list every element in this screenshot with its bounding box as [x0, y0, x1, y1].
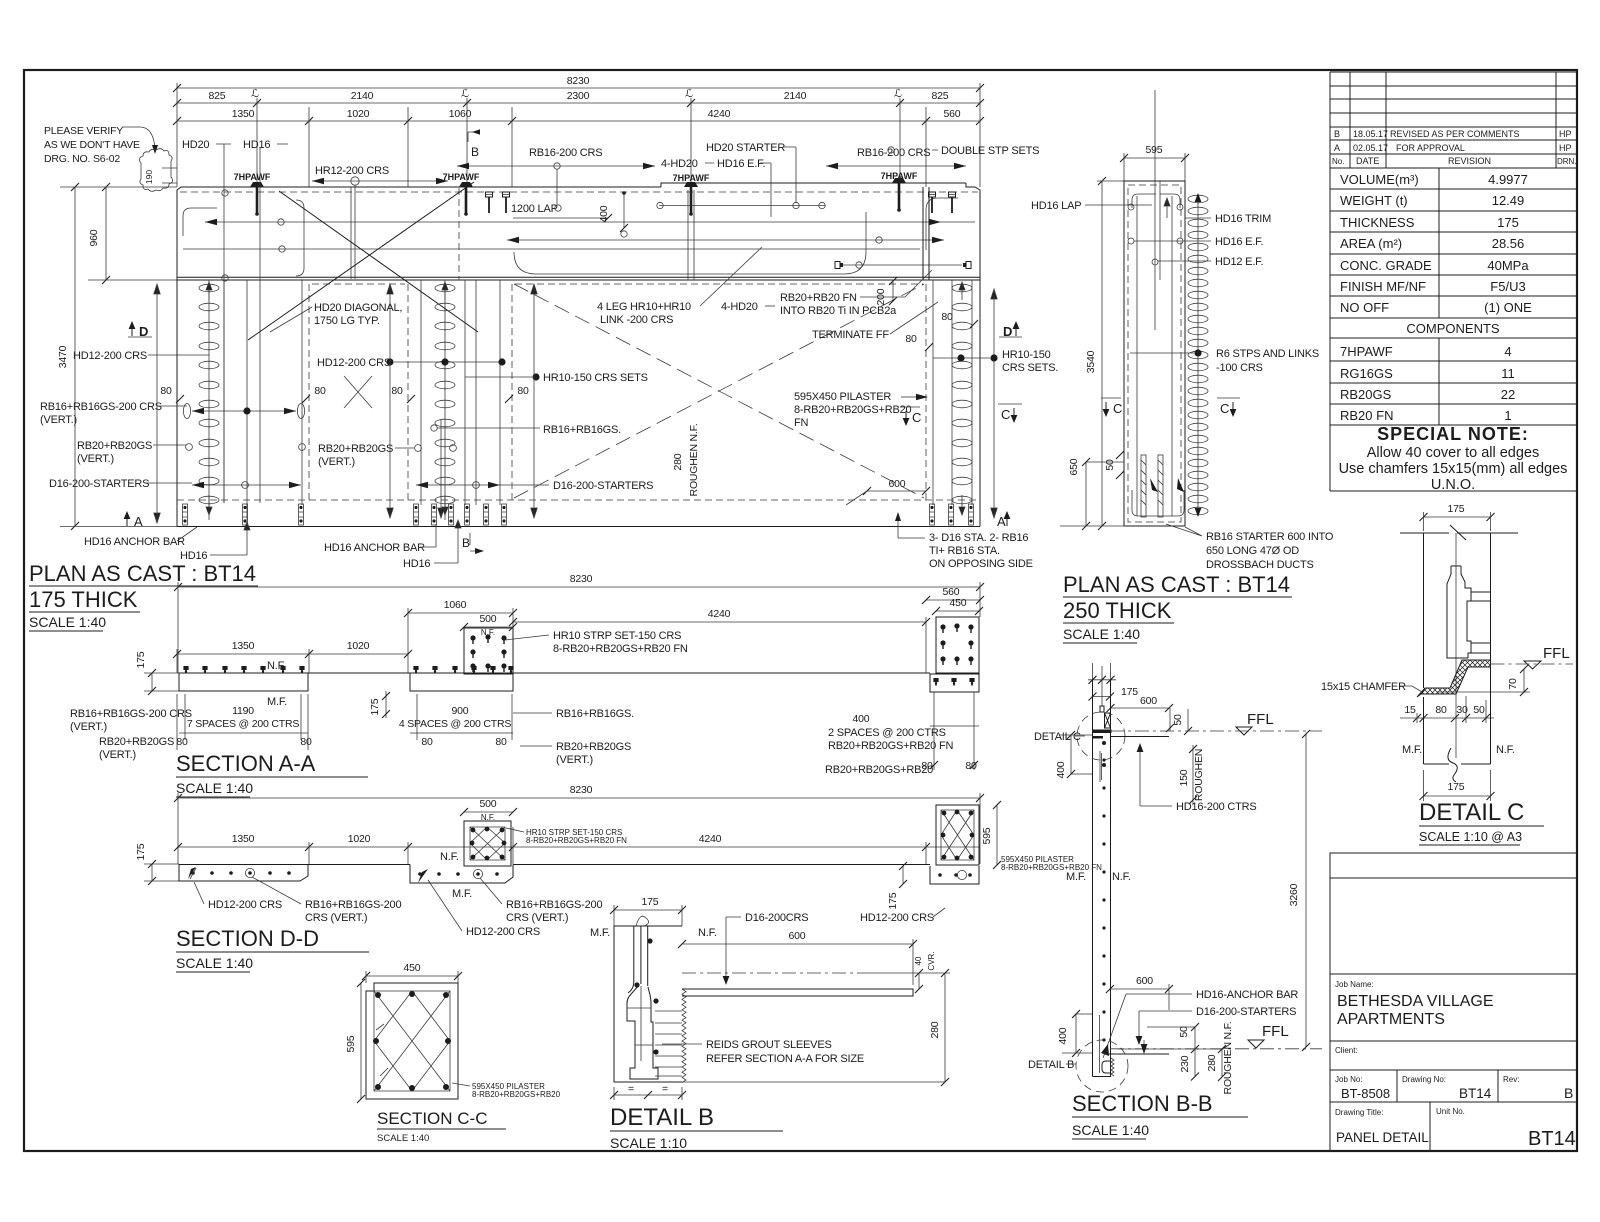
bottom dashed circle [1076, 1040, 1128, 1092]
svg-text:175: 175 [1497, 215, 1519, 230]
D section marker left [129, 321, 136, 336]
svg-text:450: 450 [404, 962, 421, 974]
svg-text:15x15 CHAMFER: 15x15 CHAMFER [1321, 681, 1406, 693]
svg-text:DATE: DATE [1356, 156, 1379, 166]
svg-text:RB16 STARTER 600 INTO: RB16 STARTER 600 INTO [1206, 531, 1334, 543]
svg-text:DRN.: DRN. [1557, 157, 1577, 166]
svg-text:7HPAWF: 7HPAWF [1340, 344, 1393, 359]
svg-text:(VERT.): (VERT.) [70, 721, 107, 733]
svg-text:400: 400 [1055, 761, 1067, 778]
svg-text:825: 825 [209, 90, 226, 102]
top edge dashed line [180, 191, 978, 193]
svg-text:Allow 40 cover to all edges: Allow 40 cover to all edges [1367, 445, 1540, 461]
svg-text:80: 80 [160, 385, 172, 397]
svg-text:40MPa: 40MPa [1487, 258, 1529, 273]
svg-text:SECTION C-C: SECTION C-C [377, 1109, 488, 1128]
svg-text:600: 600 [1136, 975, 1153, 987]
dimension extension lines [177, 83, 980, 187]
svg-text:M.F.: M.F. [267, 696, 287, 708]
svg-text:HD16: HD16 [243, 139, 270, 151]
svg-text:250 THICK: 250 THICK [1063, 598, 1172, 623]
svg-text:DOUBLE STP SETS: DOUBLE STP SETS [941, 145, 1039, 157]
svg-text:RB20 FN: RB20 FN [1340, 408, 1393, 423]
svg-text:RB20+RB20 FN: RB20+RB20 FN [780, 292, 857, 304]
svg-text:=: = [628, 1083, 634, 1095]
svg-text:D16-200-STARTERS: D16-200-STARTERS [553, 480, 653, 492]
svg-text:A: A [1334, 143, 1340, 153]
svg-text:960: 960 [88, 229, 100, 246]
opening dashed edges [309, 284, 926, 500]
top corbel profile [1100, 706, 1104, 712]
svg-text:FOR APPROVAL: FOR APPROVAL [1396, 143, 1465, 153]
svg-text:BETHESDA VILLAGE: BETHESDA VILLAGE [1337, 993, 1494, 1010]
svg-text:A: A [134, 514, 143, 529]
svg-text:400: 400 [598, 205, 610, 222]
svg-text:825: 825 [932, 90, 949, 102]
dashed pilaster edge in band [923, 187, 929, 280]
svg-text:175: 175 [642, 896, 659, 908]
svg-text:RB20GS: RB20GS [1340, 387, 1392, 402]
svg-text:(VERT.): (VERT.) [40, 414, 77, 426]
band rebar line y240 [507, 239, 944, 241]
wall verticals [1093, 680, 1111, 1077]
svg-text:LINK -200 CRS: LINK -200 CRS [600, 314, 673, 326]
svg-text:C: C [1113, 401, 1122, 416]
svg-text:4-HD20: 4-HD20 [721, 301, 758, 313]
svg-text:VOLUME(m³): VOLUME(m³) [1340, 172, 1419, 187]
svg-text:N.F.: N.F. [440, 851, 459, 863]
top U bend [1132, 194, 1180, 208]
oval link column [1188, 195, 1208, 515]
svg-text:SECTION A-A: SECTION A-A [176, 751, 316, 776]
svg-text:7HPAWF: 7HPAWF [234, 172, 271, 182]
svg-text:1350: 1350 [232, 833, 255, 845]
diamond ties [374, 991, 450, 1091]
B section cut top [468, 132, 480, 142]
svg-text:AREA (m²): AREA (m²) [1340, 236, 1402, 251]
right pilaster square [936, 805, 979, 865]
mid slab [410, 865, 513, 884]
svg-text:HD12-200 CRS: HD12-200 CRS [73, 350, 147, 362]
svg-text:B: B [462, 536, 470, 550]
svg-text:Drawing No:: Drawing No: [1402, 1075, 1446, 1084]
A section marker right [1004, 511, 1011, 526]
svg-text:2 SPACES @ 200 CTRS: 2 SPACES @ 200 CTRS [828, 727, 946, 739]
svg-text:500: 500 [480, 798, 497, 810]
svg-text:80: 80 [495, 736, 507, 748]
svg-text:HD20 DIAGONAL,: HD20 DIAGONAL, [314, 302, 402, 314]
svg-text:D16-200-STARTERS: D16-200-STARTERS [1196, 1006, 1296, 1018]
svg-text:CONC. GRADE: CONC. GRADE [1340, 258, 1432, 273]
svg-text:175: 175 [887, 892, 899, 909]
svg-text:175: 175 [1448, 781, 1465, 793]
svg-text:DETAIL C: DETAIL C [1419, 799, 1524, 826]
svg-text:7 SPACES @ 200 CTRS: 7 SPACES @ 200 CTRS [187, 718, 299, 730]
anchor bars bottom [183, 504, 188, 525]
svg-text:280: 280 [1206, 1054, 1218, 1071]
svg-text:ON OPPOSING SIDE: ON OPPOSING SIDE [929, 558, 1033, 570]
svg-text:80: 80 [391, 385, 403, 397]
svg-text:8230: 8230 [570, 784, 593, 796]
svg-text:PLAN AS CAST : BT14: PLAN AS CAST : BT14 [29, 561, 256, 586]
svg-text:HP: HP [1559, 129, 1572, 139]
svg-text:FFL: FFL [1262, 1023, 1289, 1040]
svg-text:4 LEG HR10+HR10: 4 LEG HR10+HR10 [597, 301, 691, 313]
svg-text:50: 50 [1178, 1026, 1190, 1038]
svg-text:C: C [1001, 407, 1010, 422]
svg-text:175: 175 [1448, 503, 1465, 515]
svg-text:RB20+RB20GS: RB20+RB20GS [99, 736, 174, 748]
svg-text:PLEASE VERIFY: PLEASE VERIFY [44, 125, 123, 137]
svg-text:REVISED AS PER COMMENTS: REVISED AS PER COMMENTS [1390, 129, 1520, 139]
svg-text:CRS (VERT.): CRS (VERT.) [506, 912, 568, 924]
grout insert profile [1447, 566, 1471, 658]
oval link column middle [435, 284, 455, 504]
svg-text:APARTMENTS: APARTMENTS [1337, 1011, 1445, 1028]
svg-text:N.F.: N.F. [1112, 871, 1131, 883]
svg-text:=: = [662, 1083, 668, 1095]
svg-text:RB16+RB16GS-200 CRS: RB16+RB16GS-200 CRS [40, 401, 162, 413]
svg-text:3260: 3260 [1288, 883, 1300, 906]
svg-text:Job No:: Job No: [1335, 1075, 1363, 1084]
svg-text:80: 80 [517, 385, 529, 397]
svg-text:CVR.: CVR. [927, 951, 936, 970]
svg-text:B: B [1334, 129, 1340, 139]
bottom dims [614, 1094, 682, 1096]
svg-text:2140: 2140 [784, 90, 807, 102]
svg-text:CRS SETS.: CRS SETS. [1002, 362, 1058, 374]
face line [308, 864, 930, 866]
wall strip verticals middle [421, 280, 500, 520]
svg-text:80: 80 [314, 385, 326, 397]
svg-text:HD12-200 CRS: HD12-200 CRS [317, 357, 391, 369]
svg-text:(VERT.): (VERT.) [99, 749, 136, 761]
svg-text:WEIGHT (t): WEIGHT (t) [1340, 193, 1408, 208]
svg-text:200: 200 [875, 288, 887, 305]
svg-text:80: 80 [941, 311, 953, 323]
svg-text:HR12-200 CRS: HR12-200 CRS [315, 165, 389, 177]
svg-text:595: 595 [981, 827, 993, 844]
svg-text:11: 11 [1501, 366, 1515, 381]
svg-text:HD16 ANCHOR BAR: HD16 ANCHOR BAR [84, 536, 185, 548]
svg-text:BT14: BT14 [1528, 1128, 1576, 1150]
svg-text:4-HD20: 4-HD20 [661, 158, 698, 170]
svg-text:THICKNESS: THICKNESS [1340, 215, 1415, 230]
svg-text:1200 LAP: 1200 LAP [511, 203, 558, 215]
svg-text:DROSSBACH DUCTS: DROSSBACH DUCTS [1206, 559, 1314, 571]
trim circles [1128, 204, 1134, 210]
svg-text:-100 CRS: -100 CRS [1216, 362, 1263, 374]
svg-text:595X450 PILASTER: 595X450 PILASTER [794, 391, 891, 403]
svg-text:SCALE 1:10: SCALE 1:10 [610, 1135, 687, 1151]
inner vertical bars [1155, 90, 1160, 330]
svg-text:18.05.17: 18.05.17 [1353, 129, 1388, 139]
svg-text:150: 150 [1178, 769, 1190, 786]
svg-text:1020: 1020 [347, 108, 370, 120]
svg-text:190: 190 [144, 170, 154, 184]
HD20 diagonal bars [248, 182, 478, 340]
svg-text:7HPAWF: 7HPAWF [673, 173, 710, 183]
svg-text:Job Name:: Job Name: [1335, 980, 1374, 989]
svg-text:HD16 E.F.: HD16 E.F. [717, 158, 765, 170]
svg-text:400: 400 [1057, 1027, 1069, 1044]
svg-text:SCALE 1:10 @ A3: SCALE 1:10 @ A3 [1419, 830, 1522, 844]
svg-text:BT-8508: BT-8508 [1341, 1086, 1390, 1101]
rounded rebar corners [183, 198, 958, 276]
svg-text:80: 80 [1435, 704, 1447, 716]
svg-text:1020: 1020 [347, 640, 370, 652]
svg-text:450: 450 [950, 597, 967, 609]
svg-text:HD12-200 CRS: HD12-200 CRS [860, 912, 934, 924]
HD20 starter bars [688, 190, 694, 280]
svg-text:A: A [997, 514, 1006, 529]
svg-text:HD16 TRIM: HD16 TRIM [1215, 213, 1271, 225]
svg-text:RB16+RB16GS-200: RB16+RB16GS-200 [506, 899, 602, 911]
svg-text:C: C [912, 410, 921, 425]
svg-text:DETAIL B: DETAIL B [610, 1104, 714, 1131]
chamfer notch [1417, 688, 1425, 697]
svg-text:8230: 8230 [567, 75, 590, 87]
svg-text:8-RB20+RB20GS+RB20 FN: 8-RB20+RB20GS+RB20 FN [1001, 863, 1102, 872]
opening2 big dashed X [514, 284, 924, 498]
svg-text:RB20+RB20GS: RB20+RB20GS [77, 440, 152, 452]
svg-text:FFL: FFL [1247, 711, 1274, 728]
svg-text:Client:: Client: [1335, 1046, 1358, 1055]
svg-text:650: 650 [1068, 458, 1080, 475]
svg-text:PLAN AS CAST : BT14: PLAN AS CAST : BT14 [1063, 572, 1290, 597]
svg-text:(VERT.): (VERT.) [556, 754, 593, 766]
svg-text:FN: FN [794, 417, 809, 429]
right pilaster [513, 672, 930, 674]
svg-text:80: 80 [421, 736, 433, 748]
svg-text:7HPAWF: 7HPAWF [881, 171, 918, 181]
svg-text:M.F.: M.F. [1402, 744, 1422, 756]
svg-text:1060: 1060 [449, 108, 472, 120]
svg-text:4240: 4240 [708, 108, 731, 120]
svg-text:HR10-150: HR10-150 [1002, 349, 1051, 361]
svg-text:4.9977: 4.9977 [1488, 172, 1528, 187]
svg-text:175: 175 [1121, 686, 1138, 698]
svg-text:1190: 1190 [232, 705, 254, 717]
svg-text:HD16-ANCHOR BAR: HD16-ANCHOR BAR [1196, 989, 1298, 1001]
svg-text:CRS (VERT.): CRS (VERT.) [305, 912, 367, 924]
svg-text:175: 175 [135, 651, 147, 668]
svg-text:RB20+RB20GS: RB20+RB20GS [318, 443, 393, 455]
svg-text:Unit No.: Unit No. [1436, 1107, 1465, 1116]
svg-text:SCALE 1:40: SCALE 1:40 [176, 780, 253, 796]
svg-text:HR10-150 CRS SETS: HR10-150 CRS SETS [543, 372, 648, 384]
svg-text:RB16+RB16GS-200: RB16+RB16GS-200 [305, 899, 401, 911]
band rebar line y222 [205, 221, 975, 223]
left pilaster square [464, 821, 511, 866]
svg-text:3470: 3470 [57, 345, 69, 368]
svg-text:230: 230 [1179, 1055, 1191, 1072]
panel outline [177, 183, 980, 527]
svg-text:ℒ: ℒ [894, 88, 902, 100]
svg-text:N.F.: N.F. [698, 927, 717, 939]
svg-text:HD20: HD20 [182, 139, 209, 151]
svg-text:500: 500 [480, 613, 497, 625]
svg-text:REVISION: REVISION [1448, 156, 1491, 166]
svg-text:4: 4 [1504, 344, 1511, 359]
svg-text:NO OFF: NO OFF [1340, 300, 1389, 315]
svg-text:40: 40 [914, 956, 923, 965]
svg-text:1350: 1350 [232, 108, 255, 120]
svg-text:80: 80 [300, 736, 312, 748]
svg-text:HP: HP [1559, 143, 1572, 153]
svg-text:HD12 E.F.: HD12 E.F. [1215, 256, 1263, 268]
svg-text:595: 595 [345, 1035, 357, 1052]
mesh dots [1102, 758, 1105, 1041]
properties table grid [1330, 168, 1577, 491]
svg-text:B: B [1564, 1085, 1573, 1101]
svg-text:SECTION D-D: SECTION D-D [176, 926, 319, 951]
top dashed circle [1077, 712, 1125, 760]
svg-text:M.F.: M.F. [1066, 871, 1086, 883]
corner dots [375, 992, 381, 998]
svg-text:ROUGHEN: ROUGHEN [1193, 749, 1205, 801]
svg-text:Drawing Title:: Drawing Title: [1335, 1108, 1383, 1117]
svg-text:HD16: HD16 [403, 558, 430, 570]
svg-text:280: 280 [929, 1021, 941, 1038]
svg-text:4 SPACES @ 200 CTRS: 4 SPACES @ 200 CTRS [399, 718, 511, 730]
vertical dim arrows in openings [154, 284, 160, 523]
svg-text:70: 70 [1507, 678, 1519, 690]
left slab [179, 673, 308, 691]
svg-text:TERMINATE FF: TERMINATE FF [812, 329, 889, 341]
band rebar line y249 [183, 248, 920, 250]
right slab [930, 866, 979, 884]
svg-text:8-RB20+RB20GS+RB20 FN: 8-RB20+RB20GS+RB20 FN [553, 643, 688, 655]
svg-text:U.N.O.: U.N.O. [1431, 477, 1475, 493]
bottom slab line [1104, 1053, 1169, 1055]
bottom dashed starter line [177, 499, 980, 501]
HD16 arrow inside top [1164, 198, 1170, 212]
svg-text:Use chamfers 15x15(mm) all edg: Use chamfers 15x15(mm) all edges [1339, 461, 1568, 477]
svg-text:HD20 STARTER: HD20 STARTER [706, 142, 785, 154]
svg-text:15: 15 [1404, 704, 1416, 716]
svg-text:RB16+RB16GS.: RB16+RB16GS. [543, 424, 621, 436]
svg-text:F5/U3: F5/U3 [1490, 279, 1525, 294]
svg-text:RB20+RB20GS+RB20: RB20+RB20GS+RB20 [825, 764, 933, 776]
svg-text:SCALE 1:40: SCALE 1:40 [1063, 626, 1140, 642]
svg-text:1060: 1060 [444, 599, 467, 611]
svg-text:50: 50 [1473, 704, 1485, 716]
svg-text:RB16+RB16GS-200 CRS: RB16+RB16GS-200 CRS [70, 708, 192, 720]
grout tube [628, 926, 648, 993]
wall outline [614, 926, 682, 1082]
svg-text:8-RB20+RB20GS+RB20 FN: 8-RB20+RB20GS+RB20 FN [526, 836, 627, 845]
svg-text:HD12-200 CRS: HD12-200 CRS [208, 899, 282, 911]
revision cloud [139, 149, 172, 192]
svg-text:ℒ: ℒ [461, 88, 469, 100]
svg-text:HD16 LAP: HD16 LAP [1031, 200, 1081, 212]
svg-text:B: B [471, 145, 479, 159]
svg-text:560: 560 [944, 108, 961, 120]
centerline [682, 972, 860, 974]
svg-text:175 THICK: 175 THICK [29, 587, 138, 612]
svg-text:SCALE 1:40: SCALE 1:40 [29, 614, 106, 630]
pilaster section outline [366, 983, 458, 1099]
svg-text:SECTION B-B: SECTION B-B [1072, 1091, 1213, 1116]
svg-text:400: 400 [853, 713, 870, 725]
band tie bolts y265 [840, 264, 962, 266]
svg-text:RB20+RB20GS: RB20+RB20GS [556, 741, 631, 753]
svg-text:No.: No. [1332, 157, 1344, 166]
B section cut bottom [470, 533, 482, 551]
7HPAWF anchors [250, 182, 264, 216]
svg-text:ROUGHEN N.F.: ROUGHEN N.F. [1222, 1022, 1234, 1095]
svg-text:SCALE 1:40: SCALE 1:40 [176, 955, 253, 971]
svg-text:(VERT.): (VERT.) [77, 453, 114, 465]
wall strip verticals right [933, 280, 972, 505]
svg-text:80: 80 [176, 736, 188, 748]
svg-text:(1) ONE: (1) ONE [1484, 300, 1532, 315]
svg-text:900: 900 [452, 705, 469, 717]
svg-text:REFER SECTION A-A FOR SIZE: REFER SECTION A-A FOR SIZE [706, 1053, 864, 1065]
mid slab [308, 672, 410, 674]
svg-text:2300: 2300 [567, 90, 590, 102]
svg-text:ℒ: ℒ [685, 88, 693, 100]
svg-text:HD16 ANCHOR BAR: HD16 ANCHOR BAR [324, 542, 425, 554]
roughened edge [682, 989, 686, 1083]
svg-text:D16-200CRS: D16-200CRS [745, 912, 808, 924]
top break line [1400, 525, 1518, 540]
svg-text:DRG. NO. S6-02: DRG. NO. S6-02 [44, 153, 120, 165]
svg-text:BT14: BT14 [1459, 1086, 1492, 1101]
svg-text:INTO RB20 Ti IN PCB2a: INTO RB20 Ti IN PCB2a [780, 305, 897, 317]
svg-text:N.F.: N.F. [267, 660, 286, 672]
svg-text:1350: 1350 [232, 640, 255, 652]
svg-text:8-RB20+RB20GS+RB20: 8-RB20+RB20GS+RB20 [794, 404, 912, 416]
svg-text:ROUGHEN N.F.: ROUGHEN N.F. [688, 424, 700, 497]
svg-text:M.F.: M.F. [452, 888, 472, 900]
svg-text:D16-200-STARTERS: D16-200-STARTERS [49, 478, 149, 490]
svg-text:3- D16 STA. 2- RB16: 3- D16 STA. 2- RB16 [929, 532, 1028, 544]
svg-text:600: 600 [1140, 695, 1157, 707]
svg-text:AS WE DON'T HAVE: AS WE DON'T HAVE [44, 139, 140, 151]
svg-text:02.05.17: 02.05.17 [1353, 143, 1388, 153]
svg-text:595: 595 [1146, 144, 1163, 156]
svg-text:N.F.: N.F. [1496, 744, 1515, 756]
svg-text:TI+ RB16 STA.: TI+ RB16 STA. [929, 545, 1000, 557]
svg-text:ℒ: ℒ [251, 88, 259, 100]
svg-text:80: 80 [921, 760, 933, 772]
band rebar line y206 [659, 205, 825, 207]
stud bolts [486, 192, 493, 213]
left slab [179, 865, 308, 882]
svg-text:FFL: FFL [1543, 645, 1570, 662]
svg-text:1: 1 [1504, 408, 1511, 423]
svg-text:RB16+RB16GS.: RB16+RB16GS. [556, 708, 634, 720]
wall strip verticals left [209, 280, 302, 520]
svg-text:80: 80 [905, 333, 917, 345]
revision table grid [1330, 72, 1577, 168]
svg-text:HD16-200 CTRS: HD16-200 CTRS [1176, 801, 1257, 813]
svg-text:650 LONG 47Ø OD: 650 LONG 47Ø OD [1206, 545, 1299, 557]
svg-text:HR10 STRP SET-150 CRS: HR10 STRP SET-150 CRS [553, 630, 681, 642]
svg-text:PANEL DETAIL: PANEL DETAIL [1336, 1130, 1429, 1145]
top slab edge [1111, 736, 1169, 738]
svg-text:FINISH MF/NF: FINISH MF/NF [1340, 279, 1426, 294]
svg-text:28.56: 28.56 [1492, 236, 1525, 251]
svg-text:600: 600 [789, 930, 806, 942]
title block grid [1330, 853, 1577, 1151]
slab [682, 989, 913, 996]
svg-text:HD16 E.F.: HD16 E.F. [1215, 236, 1263, 248]
svg-text:SCALE 1:40: SCALE 1:40 [377, 1133, 429, 1144]
svg-text:1750 LG TYP.: 1750 LG TYP. [314, 315, 380, 327]
